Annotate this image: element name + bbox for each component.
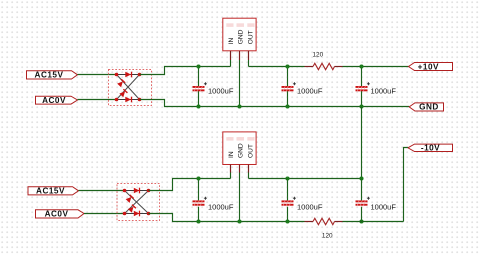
wire U2 OUT down to rail (248, 173, 250, 179)
capacitor C4 1000uF (193, 179, 207, 222)
net label GND (409, 103, 443, 112)
net label AC0V (top) (36, 96, 78, 105)
bridge B2 terminal dots (123, 189, 151, 216)
svg-text:IN: IN (228, 151, 235, 158)
svg-text:OUT: OUT (248, 144, 255, 158)
bridge B2 upper diagonal diode (126, 195, 134, 203)
bridge B1 upper diagonal diode (117, 79, 125, 87)
junction C6 bottom (359, 219, 363, 223)
bridge B2 diode on top edge (134, 188, 140, 194)
wire AC0V to bridge B1 (78, 99, 117, 101)
svg-text:1000uF: 1000uF (297, 203, 323, 212)
wire main vertical GND to bottom section (361, 107, 363, 179)
bridge B2 diagonal (BL-TR) (125, 191, 149, 214)
svg-text:GND: GND (419, 103, 439, 112)
wire R1 to +10V flag (343, 66, 409, 68)
bridge B1 terminal dots (115, 73, 142, 102)
junction C6 top (359, 176, 363, 180)
svg-text:1000uF: 1000uF (297, 86, 323, 95)
U2 pin IN (230, 165, 232, 173)
wire -10V flag down to bottom rail (404, 148, 408, 222)
wire U1 GND to GND rail (239, 60, 241, 107)
junction C3 top (359, 64, 363, 68)
net label -10V (408, 144, 453, 153)
net label AC0V (bottom) (36, 209, 85, 218)
junction C1 top (196, 64, 200, 68)
capacitor C2 1000uF (282, 67, 296, 107)
wire U1 OUT down to output rail (248, 60, 250, 67)
U2 pin OUT (248, 165, 250, 173)
wire U2 IN to rail (230, 173, 232, 179)
bridge B2 top edge line (125, 190, 149, 192)
wire AC0V to bridge B2 (84, 213, 125, 215)
capacitor C6 1000uF (356, 179, 370, 222)
svg-text:+10V: +10V (418, 62, 439, 71)
svg-text:1000uF: 1000uF (371, 86, 397, 95)
svg-text:1000uF: 1000uF (208, 203, 234, 212)
wire U2 GND to bottom rail (239, 173, 241, 222)
bridge B2 bottom edge line (125, 213, 149, 215)
svg-text:AC0V: AC0V (42, 96, 66, 105)
net label +10V (409, 62, 453, 71)
svg-text:1000uF: 1000uF (371, 203, 397, 212)
bridge B1 diode on bottom edge (125, 97, 131, 103)
resistor R2 (305, 218, 343, 224)
U1 pin IN (230, 51, 232, 60)
svg-text:GND: GND (237, 29, 244, 44)
svg-text:1000uF: 1000uF (208, 86, 234, 95)
wire bridge B2 + output to bottom section top rail (149, 179, 231, 191)
junction C1 bottom (196, 104, 200, 108)
U2 pin GND (239, 165, 241, 173)
wire AC15V to bridge B2 (79, 190, 125, 192)
bridge B2 diode on bottom edge (134, 211, 140, 217)
bridge rectifier B1 dashed outline (109, 70, 152, 106)
svg-text:120: 120 (313, 51, 324, 58)
voltage regulator U2 box (223, 132, 256, 165)
junction C2 top (285, 64, 289, 68)
svg-text:OUT: OUT (248, 30, 255, 44)
junction C5 bottom (285, 219, 289, 223)
bridge B1 diagonal (BL-TR) (117, 75, 140, 100)
junction U2 GND at bottom rail (237, 219, 241, 223)
junction C4 bottom (196, 219, 200, 223)
junction C2 bottom (285, 104, 289, 108)
voltage regulator U1 box (223, 18, 256, 51)
net label AC15V (top) (27, 71, 78, 80)
bridge rectifier B2 dashed outline (117, 184, 160, 221)
net label AC15V (bottom) (28, 187, 79, 196)
bridge B2 diagonal (TL-BR) (125, 191, 149, 214)
junction C3 bottom (359, 104, 363, 108)
svg-text:IN: IN (228, 37, 235, 44)
bridge B2 lower diagonal diode (128, 205, 136, 213)
wire U1 OUT rail to resistor R1 (249, 66, 305, 68)
svg-text:GND: GND (237, 143, 244, 158)
U1 pin GND (239, 51, 241, 60)
bridge B1 diagonal (TL-BR) (117, 75, 140, 100)
capacitor C1 1000uF (193, 67, 207, 107)
svg-text:AC0V: AC0V (45, 209, 69, 218)
resistor R1 (305, 63, 343, 69)
bridge B1 bottom edge line (117, 99, 140, 101)
bridge B1 lower diagonal diode (119, 89, 127, 97)
bridge B1 top edge line (117, 74, 140, 76)
svg-text:120: 120 (322, 232, 333, 239)
wire bridge B1 + output to top rail (140, 67, 231, 75)
bridge B1 diode on top edge (125, 72, 131, 78)
junction C5 top (285, 176, 289, 180)
junction C4 top (196, 176, 200, 180)
wire AC15V to bridge B1 (78, 74, 117, 76)
junction U1 GND at GND rail (237, 104, 241, 108)
wire bridge B2 - output to bottom rail (149, 214, 305, 222)
capacitor C5 1000uF (282, 179, 296, 222)
wire U1 IN to top rail (230, 60, 232, 67)
wire U2 OUT rail to main vertical (249, 178, 362, 180)
svg-text:AC15V: AC15V (36, 187, 65, 196)
U1 pin OUT (248, 51, 250, 60)
svg-text:AC15V: AC15V (35, 71, 64, 80)
svg-text:-10V: -10V (421, 144, 440, 153)
capacitor C3 1000uF (356, 67, 370, 107)
wire R2 to -10V vertical (343, 221, 404, 223)
wire bridge B1 - output to GND rail (140, 100, 410, 107)
